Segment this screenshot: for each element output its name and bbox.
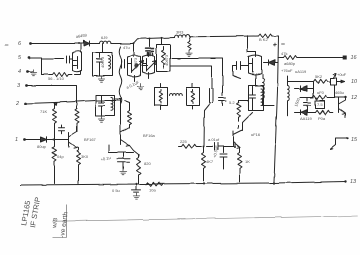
wire (31, 43, 79, 45)
capacitor C-t5 (250, 86, 256, 111)
diode D5 (295, 110, 316, 116)
resistor R-71K vertical (53, 103, 58, 126)
wire vertical coil lead (119, 47, 122, 105)
svg-text:a680p: a680p (284, 61, 296, 66)
svg-text:47u: 47u (123, 45, 130, 50)
node terminal 12 (344, 96, 346, 98)
capacitor C-int (219, 98, 226, 106)
wire (54, 103, 56, 106)
tank T2 box (93, 53, 113, 76)
node plus tick (274, 43, 277, 46)
capacitor C-decouple1 electrolytic (149, 39, 151, 47)
capacitor C-el electrolytic (220, 147, 227, 170)
capacitor C-g1 (42, 56, 73, 64)
resistor R-det2 (313, 95, 346, 99)
capacitor C-05 below rail (132, 185, 141, 193)
resistor R-avc (284, 56, 345, 60)
svg-text:56 - 1/10: 56 - 1/10 (48, 76, 65, 81)
capacitor C-q2in (122, 59, 125, 68)
resistor R-c2 vertical (125, 101, 132, 128)
transistor Q5 mosfet (249, 52, 262, 86)
wire (272, 35, 279, 37)
ground (30, 70, 36, 76)
transistor Q8 bjt (69, 127, 77, 149)
wire (239, 147, 241, 151)
wire (27, 86, 77, 109)
wire arrow q3 (147, 61, 157, 71)
diode D3 (264, 60, 278, 66)
inductor L-t5 (261, 89, 263, 106)
wire (111, 43, 134, 45)
wire avc line (278, 57, 284, 59)
svg-text:12: 12 (351, 95, 357, 101)
resistor R-rail 1K (259, 34, 272, 38)
inductor L-t3 (111, 98, 113, 111)
wire (109, 145, 134, 153)
capacitor C-bars (204, 89, 213, 147)
transistor Q6 bjt (234, 113, 253, 148)
capacitor C-t3 (99, 96, 105, 116)
svg-text:16: 16 (351, 55, 358, 61)
resistor R-e1 vertical (77, 148, 81, 169)
potentiometer box (331, 74, 337, 86)
wire main vertical rail (274, 36, 279, 182)
wire (26, 101, 96, 104)
node terminal 16 (343, 56, 347, 60)
tank T3 box (96, 96, 115, 116)
resistor R-c1 vertical (75, 109, 79, 133)
node junction (203, 146, 205, 148)
wire (28, 71, 33, 73)
node minus tick (282, 43, 285, 45)
svg-text:820: 820 (144, 161, 151, 166)
node junction rail (203, 182, 205, 184)
ground (133, 193, 139, 199)
wire (47, 139, 69, 141)
svg-text:15: 15 (351, 137, 358, 143)
wire bottom thin line (56, 216, 358, 221)
svg-text:47k: 47k (281, 51, 287, 56)
diode D1 (79, 41, 90, 46)
svg-text:a.01uf: a.01uf (208, 137, 220, 142)
capacitor C-1500 (304, 98, 311, 113)
inductor L-mid (170, 94, 183, 96)
svg-text:uF16: uF16 (251, 132, 261, 137)
tank T5 box (249, 86, 264, 111)
resistor R-t4c inside (191, 90, 194, 104)
wire mid row (301, 97, 313, 99)
ground (120, 169, 126, 175)
svg-text:B K2: B K2 (259, 37, 268, 42)
resistor R-52 vertical (237, 101, 249, 129)
svg-text:6J9: 6J9 (101, 35, 108, 40)
svg-text:BF16a: BF16a (143, 133, 156, 138)
wire left small dash (6, 44, 9, 46)
node terminal 10 (341, 80, 345, 83)
tank T4 box (157, 38, 171, 72)
node junction (133, 42, 135, 44)
ground (137, 84, 143, 90)
wire (90, 43, 100, 45)
resistor R-225 horizontal (179, 144, 202, 148)
wire (328, 81, 345, 83)
transistor Q7 bjt (121, 99, 130, 146)
resistor R-820 vertical (137, 155, 141, 185)
svg-text:465u: 465u (335, 90, 344, 95)
resistor R-4K7 vertical (202, 147, 206, 181)
wire interstage loop (172, 59, 223, 96)
inductor L1 (100, 41, 111, 43)
wire (54, 164, 56, 184)
node junction (161, 37, 163, 39)
node terminal 1 (23, 138, 26, 141)
svg-text:13: 13 (350, 179, 357, 185)
svg-text:3R3: 3R3 (176, 30, 184, 35)
wire inner (171, 66, 212, 89)
svg-text:0 5u: 0 5u (112, 188, 120, 193)
svg-text:40673: 40673 (133, 57, 138, 69)
wire note bracket (53, 205, 67, 238)
wire ground rail (21, 182, 346, 186)
svg-text:uA119: uA119 (295, 69, 307, 74)
svg-text:71K: 71K (40, 109, 47, 114)
capacitor C-q8 (55, 125, 65, 135)
node terminal 15 (346, 137, 348, 139)
resistor R-1K vertical (238, 151, 242, 182)
tank T4c box (187, 84, 200, 110)
wire (331, 139, 348, 150)
ground (98, 116, 104, 122)
node terminal 4 (26, 70, 29, 73)
transistor Q1 dual-gate mosfet (73, 44, 82, 75)
node junction (53, 139, 55, 141)
resistor R-t4 inside (162, 47, 166, 69)
capacitor C-q5 (233, 62, 249, 79)
capacitor C-t2 (97, 53, 103, 76)
node junction (149, 38, 151, 40)
wire (78, 166, 80, 184)
node junction (234, 146, 236, 148)
node terminal 2 (24, 102, 27, 105)
svg-text:3K0: 3K0 (81, 154, 89, 159)
node terminal 3 (25, 84, 28, 87)
svg-text:2: 2 (15, 101, 19, 107)
svg-text:04p: 04p (57, 154, 64, 159)
wire (288, 81, 314, 83)
svg-text:10: 10 (351, 79, 358, 85)
wire (248, 36, 256, 52)
node terminal 6 (29, 42, 32, 45)
resistor R-b1 vertical (53, 140, 57, 165)
svg-text:1: 1 (15, 137, 18, 143)
wire (334, 86, 336, 98)
wire q7 base feed (96, 99, 121, 101)
node terminal 5 (27, 56, 30, 59)
box 7.5 (316, 101, 325, 109)
svg-text:40673: 40673 (164, 54, 169, 66)
wire top rail (134, 36, 259, 43)
svg-text:80up: 80up (37, 144, 47, 149)
svg-text:4K7: 4K7 (206, 159, 214, 164)
resistor R-src 56 (42, 73, 72, 77)
svg-text:1K: 1K (245, 159, 250, 164)
inductor L2 on rail (175, 35, 190, 38)
wire (102, 44, 104, 53)
capacitor C-coupling (207, 143, 236, 150)
wire (130, 146, 139, 155)
transistor Q3 mosfet (143, 53, 155, 79)
diode D4 (295, 82, 314, 98)
inductor L-t2 (109, 56, 111, 70)
svg-text:7.5: 7.5 (317, 102, 323, 107)
node junction rail2 (135, 183, 137, 185)
resistor R-det3 (316, 110, 333, 114)
svg-text:+0uF: +0uF (337, 72, 347, 77)
resistor R-100 on rail (147, 182, 163, 186)
resistor R-t4b inside (159, 90, 162, 104)
wire (75, 74, 81, 76)
diode D2 (25, 137, 47, 142)
svg-text:4: 4 (18, 69, 21, 75)
svg-text:+76uF: +76uF (281, 68, 293, 73)
svg-text:uF0: uF0 (317, 90, 325, 95)
node junction (78, 43, 80, 45)
inductor L3 vertical (263, 75, 275, 106)
wire (54, 135, 56, 140)
node terminal 13 (344, 180, 346, 182)
transistor Q2 mosfet (128, 43, 141, 81)
svg-text:AA119: AA119 (300, 116, 312, 121)
transistor Q2 dot (134, 63, 138, 67)
svg-text:5.2: 5.2 (229, 100, 235, 105)
svg-text:BF167: BF167 (84, 137, 97, 142)
ground (98, 76, 104, 82)
svg-text:10a: 10a (149, 188, 156, 193)
wire stage2 drain drop (133, 43, 135, 52)
svg-text:5K2: 5K2 (315, 74, 323, 79)
inductor L4 secondary (288, 77, 290, 116)
svg-text:P0a: P0a (318, 116, 326, 121)
wire (29, 58, 42, 75)
node junction rail3 (273, 182, 275, 184)
capacitor C-e2 (118, 153, 131, 169)
resistor R-5K2 (314, 79, 328, 83)
ground (186, 50, 192, 56)
resistor R-gnd2 (188, 37, 191, 50)
svg-text:40673: 40673 (100, 56, 105, 68)
wire arrow (132, 61, 148, 72)
transistor Q9 bjt (339, 98, 346, 118)
svg-text:225: 225 (180, 139, 187, 144)
tank T4b box (155, 84, 168, 110)
